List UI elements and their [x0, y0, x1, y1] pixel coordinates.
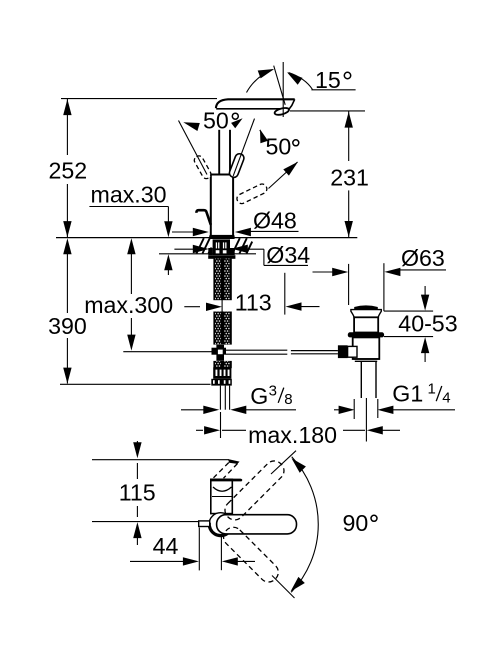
- wire: 40-53 top ref line: [384, 310, 433, 312]
- 15 deg tilted axis line: [274, 66, 286, 105]
- wire: hose end reference line: [60, 383, 211, 385]
- label 40-53: [398, 311, 457, 337]
- 50deg-2 arrowhead: [283, 162, 298, 176]
- 50deg-2 arc stub upper: [260, 129, 268, 143]
- mounting nut striped: [213, 239, 230, 255]
- O63 underline: [400, 269, 446, 271]
- svg-text:G1: G1: [392, 380, 423, 406]
- drain flange lip: [351, 310, 381, 318]
- svg-text:4: 4: [442, 389, 450, 406]
- svg-text:15: 15: [315, 67, 341, 93]
- spout underside line: [216, 108, 285, 110]
- dim O48 left arrow: [172, 228, 209, 236]
- 50deg-2 ray: [269, 162, 298, 189]
- svg-text:G: G: [250, 383, 268, 409]
- label 231: [330, 164, 369, 190]
- drain tail pipe: [361, 361, 376, 398]
- plan: 90deg arc: [291, 457, 319, 593]
- max180 dim line: [222, 429, 365, 431]
- plan: lever axis ext upper: [271, 451, 296, 474]
- handle solid position: [228, 153, 245, 179]
- label max.30: [91, 181, 167, 207]
- dim O34 left arrow: [174, 245, 208, 253]
- drain ext line left: [348, 264, 350, 305]
- plan: lever solid: [217, 515, 297, 534]
- drain cap black: [354, 305, 378, 309]
- braided hose segment 2: [213, 312, 231, 345]
- spout top contour with elbow stub: [216, 99, 295, 108]
- handle dashed position right-back: [235, 182, 268, 205]
- label 113: [235, 289, 272, 315]
- label O63: [401, 245, 445, 271]
- drain upper body: [354, 317, 378, 332]
- drain collar lines: [353, 359, 380, 361]
- svg-text:44: 44: [153, 533, 179, 559]
- svg-text:231: 231: [330, 164, 369, 190]
- dim G3/8 arrow: [181, 406, 296, 414]
- leader max.30: [89, 207, 172, 238]
- dim 252 line+arrows: [63, 99, 71, 238]
- dim 40-53 bottom arrow: [421, 337, 429, 362]
- wire: 40-53 bottom ref line: [384, 336, 433, 338]
- svg-text:390: 390: [48, 313, 87, 339]
- aerator vertical centerline: [282, 62, 284, 117]
- drain ext line right: [383, 263, 385, 311]
- wire: spout outlet reference line: [290, 110, 365, 112]
- plan: pivot circle: [209, 513, 232, 536]
- O34 leader elbow: [264, 249, 308, 265]
- spout tip bevel: [287, 99, 295, 112]
- label O34: [266, 242, 310, 268]
- svg-text:1: 1: [428, 381, 436, 398]
- plan: dashed spout sides: [214, 463, 238, 479]
- svg-text:max.300: max.300: [84, 292, 173, 318]
- label 252: [49, 158, 88, 184]
- 50deg-1 left arrowhead: [183, 122, 200, 131]
- svg-text:115: 115: [119, 479, 156, 505]
- label 90deg: [343, 510, 378, 536]
- braided hose segment 1: [213, 259, 231, 301]
- faucet centerline in hose gap: [221, 298, 223, 312]
- dim O48 right arrow: [235, 228, 251, 236]
- dim G1-1/4 arrows: [334, 406, 455, 414]
- plan: cartridge dome arc: [213, 487, 232, 491]
- plan: body rect: [211, 479, 233, 513]
- svg-text:252: 252: [49, 158, 88, 184]
- drain rod clamp knob: [338, 345, 357, 358]
- svg-text:40-53: 40-53: [398, 311, 457, 337]
- dim 115 arrows: [133, 441, 141, 545]
- spout neck pipe: [219, 130, 230, 175]
- dim max.30 under-deck arrow: [164, 254, 172, 275]
- braided hose segment 3: [213, 361, 231, 368]
- pop-up rod segment 2: [291, 351, 338, 354]
- dim max300 line+arrows: [127, 238, 135, 350]
- label 15 deg: [315, 67, 351, 93]
- plan: inner line: [212, 496, 232, 498]
- 15 deg label underline: [311, 89, 355, 91]
- max180 left ext line: [220, 412, 222, 438]
- svg-text:Ø63: Ø63: [401, 245, 445, 271]
- label max.300: [84, 292, 173, 318]
- label G3/8: [250, 382, 292, 409]
- plan: pivot thick arc: [209, 523, 227, 536]
- aerator ellipse: [274, 107, 290, 116]
- dim max180 arrows: [196, 426, 400, 434]
- svg-text:max.180: max.180: [248, 422, 337, 448]
- plan: lever axis ext lower: [272, 576, 295, 599]
- 15 deg arc left with arrowhead: [247, 69, 275, 93]
- O48 underline: [251, 230, 299, 232]
- svg-text:max.30: max.30: [91, 181, 167, 207]
- drain centerline below pipe: [365, 398, 367, 442]
- deck bottom line: [159, 253, 256, 255]
- svg-text:50: 50: [266, 133, 292, 159]
- svg-text:Ø34: Ø34: [266, 242, 310, 268]
- dim 231 line+arrows: [345, 111, 353, 237]
- label max.180: [248, 422, 337, 448]
- pop-up rod segment 1: [226, 350, 287, 354]
- deck top line: [56, 237, 357, 239]
- label 50deg-2: [266, 133, 299, 159]
- hose end nut: [211, 379, 232, 386]
- 50deg-1 right ray: [233, 119, 254, 176]
- label O48: [253, 207, 297, 233]
- 50deg-1 right arrowhead: [231, 118, 243, 128]
- svg-text:50: 50: [203, 107, 229, 133]
- label 50deg-1: [203, 107, 238, 133]
- G1-1/4 ext lines: [354, 399, 378, 419]
- plan: lever dashed down-right: [220, 523, 282, 585]
- label G1-1/4: [392, 380, 450, 406]
- dim O63 right arrow: [384, 268, 400, 276]
- svg-text:Ø48: Ø48: [253, 207, 297, 233]
- plan: lever dashed up-right: [221, 457, 288, 524]
- dim O34 right arrow: [232, 245, 264, 253]
- plan: hinge dark bar: [211, 479, 242, 482]
- plan: centerline2: [92, 521, 199, 523]
- rod cross fitting: [212, 345, 227, 361]
- 15 deg arc right with arrowhead: [287, 72, 313, 89]
- drain lower body: [353, 337, 380, 359]
- dim 390 line+arrows: [63, 238, 71, 383]
- dim 113 right arrow: [286, 302, 320, 310]
- svg-text:3: 3: [269, 382, 277, 399]
- drain o-ring flange black: [348, 332, 384, 337]
- plan: spout tip bar: [229, 460, 239, 464]
- handle side profile hook: [197, 210, 211, 225]
- 50deg-1 left ray: [179, 121, 208, 175]
- wire: top reference line at spout height: [61, 98, 217, 100]
- label 44: [153, 533, 179, 559]
- wire: max300 bottom ref to rod: [123, 351, 211, 353]
- label 390: [48, 313, 87, 339]
- deck hatch left: [197, 238, 212, 253]
- deck hatch right: [233, 238, 253, 253]
- hose connector bands: [213, 367, 231, 378]
- dim 40-53 top arrow: [421, 286, 429, 311]
- dim 113 left arrow: [184, 303, 222, 311]
- plan: spout nub left: [199, 521, 210, 527]
- dim O63 left arrow: [313, 268, 349, 276]
- faucet body rectangle: [211, 175, 233, 236]
- dim 44 ext lines: [199, 528, 221, 571]
- supply tails G3/8: [220, 386, 229, 410]
- plan: spout tip reference line: [92, 459, 229, 461]
- horseshoe washer: [208, 248, 235, 259]
- label 115: [119, 479, 156, 505]
- dim 113 right ext line: [284, 273, 286, 315]
- svg-text:8: 8: [284, 391, 292, 408]
- svg-text:90: 90: [343, 510, 369, 536]
- svg-text:113: 113: [235, 289, 272, 315]
- handle dashed position left: [193, 154, 213, 180]
- faucet base dark band: [209, 235, 234, 239]
- dim 44 arrows: [130, 557, 255, 565]
